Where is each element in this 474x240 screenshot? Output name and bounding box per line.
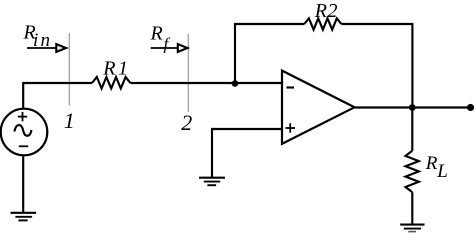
wire R1 to op-amp minus input: [130, 82, 282, 84]
junction dot output node: [409, 104, 416, 111]
svg-text:R2: R2: [314, 0, 338, 22]
wire feedback up and across: [235, 24, 304, 83]
output terminal dot: [467, 104, 474, 111]
label Rf: [150, 23, 171, 54]
resistor RL: [406, 151, 419, 193]
label R2: [314, 0, 338, 22]
node 2 marker line: [187, 34, 189, 112]
svg-text:L: L: [436, 161, 448, 182]
wire source bottom to ground: [22, 155, 24, 212]
wire plus input to ground: [212, 129, 282, 177]
resistor R2: [304, 18, 341, 29]
svg-text:f: f: [164, 35, 171, 54]
node 1 label: [64, 108, 75, 133]
wire R2 to output node: [341, 24, 412, 108]
svg-text:R: R: [150, 23, 163, 45]
label RL: [425, 153, 448, 182]
arrow Rf: [151, 44, 188, 52]
svg-text:1: 1: [64, 108, 75, 133]
resistor R1: [92, 77, 130, 89]
node 1 marker line: [68, 33, 70, 106]
op-amp U1: [282, 71, 355, 144]
ground at source: [11, 213, 37, 221]
svg-text:R1: R1: [102, 57, 130, 79]
label Rin: [23, 22, 53, 52]
junction dot node 2 / inverting input: [232, 80, 239, 87]
wire source top to R1: [23, 83, 92, 110]
ground at RL: [400, 225, 424, 232]
wire RL to ground: [411, 192, 413, 224]
node 2 label: [181, 110, 192, 135]
source VS (sine source circle): [1, 109, 48, 156]
wire output node to RL: [411, 108, 413, 151]
arrow Rin: [27, 44, 66, 52]
ground at op-amp plus input: [199, 178, 225, 186]
svg-text:2: 2: [181, 110, 192, 135]
label R1: [102, 57, 130, 79]
wire op-amp output: [355, 106, 472, 108]
svg-text:R: R: [425, 153, 438, 174]
